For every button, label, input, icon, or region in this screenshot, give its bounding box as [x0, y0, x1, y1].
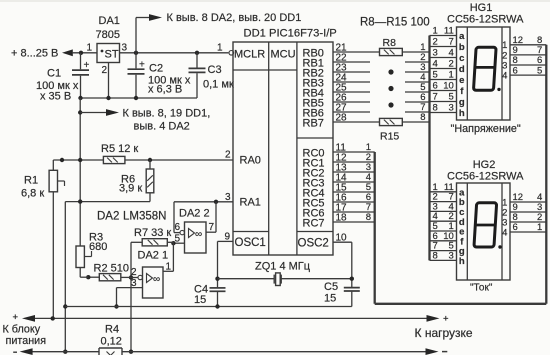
minus rail right arrow: [426, 348, 439, 355]
wire RC7 to digit bus, wire 8: [333, 212, 375, 223]
op-amp DA2.2: [185, 222, 207, 253]
wire RC1 to digit bus, wire 2: [333, 152, 375, 163]
node left drop minus rail: [63, 350, 67, 354]
microcontroller DD1 body: [233, 42, 333, 255]
capacitor C3: [189, 53, 206, 98]
resistor R7: [142, 239, 167, 246]
svg-text:11: 11: [444, 26, 454, 37]
svg-text:c: c: [459, 53, 464, 64]
wire RB4 left part: [333, 91, 370, 93]
trimmer R1: [49, 160, 64, 192]
HG2 segment f pin 10 wire 6: [430, 231, 465, 248]
resistor R3: [76, 246, 84, 268]
wire RB2 left part: [333, 71, 370, 73]
wire RB1 right part, wire 2: [405, 52, 430, 63]
wire ground drop: [79, 98, 81, 246]
resistor R2: [99, 274, 121, 281]
svg-text:0,1 мк: 0,1 мк: [203, 79, 234, 91]
HG1 segment h pin 3 wire 8: [430, 103, 465, 120]
HG1 segment e pin 1 wire 5: [430, 70, 465, 87]
wire RC3 to digit bus, wire 4: [333, 172, 375, 183]
svg-text:15: 15: [324, 293, 336, 305]
label K nagruzke: [415, 326, 473, 340]
svg-text:CC56-12SRWA: CC56-12SRWA: [447, 14, 524, 26]
display HG1 body: [457, 27, 511, 120]
svg-text:a: a: [459, 31, 465, 42]
segment bundle bus: [428, 36, 430, 261]
display HG2 header: [447, 159, 524, 183]
plus mark right: [443, 314, 449, 325]
svg-text:b: b: [459, 42, 465, 53]
capacitor C4 labels: [194, 284, 208, 307]
svg-text:R1: R1: [24, 175, 38, 187]
wire OSC2 down: [351, 242, 353, 287]
resistor R8 label: [383, 37, 397, 49]
capacitor C4: [210, 288, 226, 307]
node R2 R3 junction: [86, 275, 90, 279]
wire RB6 left part: [333, 111, 370, 113]
svg-text:К нагрузке: К нагрузке: [415, 326, 473, 340]
node ground-R5 junction: [78, 158, 82, 162]
wire +5V branch up: [136, 18, 149, 53]
wire R2 left: [88, 276, 99, 278]
wire RA1 to DA2.2 pin6: [173, 202, 175, 233]
wire R2 right to summing node: [121, 276, 131, 278]
R3 wiper tap: [84, 251, 91, 257]
DA2.2 pin5 wire: [173, 242, 184, 244]
wire RB3 left part: [333, 81, 370, 83]
svg-text:3: 3: [449, 103, 454, 114]
svg-text:3: 3: [433, 48, 438, 59]
wire R7 right: [167, 241, 173, 244]
svg-text:2: 2: [449, 59, 454, 70]
svg-text:R5 12 к: R5 12 к: [101, 143, 138, 155]
DD1 RB0 label and pin 21: [303, 43, 348, 60]
DD1 RB3 label and pin 24: [303, 73, 348, 90]
minus rail left arrow: [20, 348, 33, 355]
display HG2 body: [457, 183, 511, 280]
DD1 OSC2 label: [298, 238, 329, 250]
wire R6 bottom to left drop: [65, 193, 150, 202]
HG2 segment d pin 2 wire 4: [430, 211, 465, 228]
capacitor C2 labels: [148, 63, 191, 96]
wire RB0 to R8: [333, 51, 380, 53]
svg-text:OSC1: OSC1: [235, 237, 266, 249]
OSC1 pin9 label: [224, 232, 230, 243]
DD1 RB6 label and pin 27: [303, 103, 348, 120]
HG2 digit 1 common pin 12 wire 4: [502, 192, 546, 208]
node crystal right junction: [350, 277, 354, 281]
DD1 RB7 label and pin 28: [303, 113, 348, 130]
svg-text:+: +: [13, 312, 19, 323]
DA2.1 pin2 bubble: [138, 275, 142, 279]
wire RB5 left part: [333, 101, 370, 103]
wire RB4 right part, wire 5: [405, 82, 430, 93]
DA2.2 pin7 wire: [206, 231, 216, 233]
svg-text:15: 15: [194, 294, 206, 306]
svg-text:RA1: RA1: [240, 197, 261, 209]
svg-text:К выв. 8 DA2, выв. 20 DD1: К выв. 8 DA2, выв. 20 DD1: [167, 12, 302, 24]
shunt resistor R4: [99, 348, 122, 355]
svg-text:х 35 В: х 35 В: [40, 91, 71, 103]
svg-text:4: 4: [502, 227, 507, 238]
DA2.2 pin6 wire: [174, 232, 180, 234]
svg-text:2: 2: [101, 65, 107, 76]
svg-text:h: h: [459, 108, 465, 119]
svg-text:CC56-12SRWA: CC56-12SRWA: [447, 171, 524, 183]
svg-text:∞: ∞: [153, 274, 160, 285]
node pin5 R7 junction: [171, 241, 175, 245]
svg-text:1: 1: [537, 222, 542, 233]
wire RC5 to digit bus, wire 6: [333, 192, 375, 203]
resistor R2 label: [94, 263, 129, 275]
node crystal left junction: [215, 277, 219, 281]
svg-text:4: 4: [449, 48, 454, 59]
svg-text:2: 2: [225, 150, 231, 161]
svg-text:+ 8...25 В: + 8...25 В: [11, 48, 58, 60]
DD1 RA0 label: [240, 155, 261, 167]
resistor R5: [103, 156, 125, 163]
plus rail right arrow: [427, 315, 440, 322]
wire to ground arrow: [80, 112, 106, 114]
DD1 MCLR label: [234, 49, 265, 61]
svg-text:C3: C3: [208, 64, 222, 76]
svg-text:HG1: HG1: [470, 2, 493, 14]
RA0 pin2 label: [225, 150, 231, 161]
svg-text:4: 4: [502, 71, 507, 82]
node C2 top junction: [134, 51, 138, 55]
svg-text:1: 1: [217, 43, 223, 54]
svg-text:R4: R4: [105, 324, 119, 336]
label Napryazhenie: [451, 123, 521, 135]
DD1 RC3 label and pin 14: [303, 173, 348, 190]
svg-text:OSC2: OSC2: [298, 238, 329, 250]
svg-text:2: 2: [433, 37, 438, 48]
HG1 digit 1 common pin 12 wire 8: [502, 35, 546, 51]
minus mark left: [13, 351, 17, 353]
HG2 seven-segment digit: [474, 203, 502, 249]
wire R8 to segment bus, wire 1: [402, 42, 429, 53]
svg-text:1: 1: [449, 70, 454, 81]
wire pin3 to ground rail: [116, 288, 118, 307]
DA1 pin 1 label: [86, 43, 92, 54]
svg-text:3: 3: [122, 43, 128, 54]
DD1 RC0 label and pin 11: [303, 143, 347, 160]
HG2 segment c pin 4 wire 3: [430, 201, 465, 218]
svg-text:ZQ1 4 МГц: ZQ1 4 МГц: [255, 261, 311, 273]
crystal ZQ1: [218, 273, 352, 286]
display HG1 header: [447, 2, 524, 26]
regulator DA1 7805 labels: [96, 15, 120, 41]
DA1 pin 2 label: [101, 65, 107, 76]
svg-text:MCU: MCU: [271, 49, 296, 61]
svg-text:питания: питания: [6, 335, 47, 347]
DA2.2 pin7 label: [209, 222, 215, 233]
wire RB1 left part: [333, 61, 370, 63]
wire OSC2 pin10: [333, 241, 352, 243]
svg-text:DA2 1: DA2 1: [138, 250, 169, 262]
label DA2 LM358N: [97, 211, 166, 223]
node R6 top junction: [148, 158, 152, 162]
regulator DA1 body: [97, 44, 120, 63]
HG1 segment c pin 4 wire 3: [430, 48, 465, 65]
node shunt sense minus rail: [129, 350, 133, 354]
resistor R3 labels: [89, 232, 107, 254]
DD1 RB4 label and pin 25: [303, 83, 348, 100]
capacitor C5: [344, 288, 360, 307]
label R8-R15 100: [360, 17, 430, 29]
svg-text:ST: ST: [105, 49, 119, 61]
node ground arrow junction: [78, 110, 82, 114]
svg-text:"Ток": "Ток": [470, 283, 493, 294]
RA1 pin3 label: [225, 192, 231, 203]
svg-text:R8—R15 100: R8—R15 100: [360, 17, 430, 29]
ellipsis dots for R9-R14: [388, 69, 393, 107]
wire left drop down: [64, 202, 66, 352]
svg-text:g: g: [459, 97, 465, 108]
resistor R6: [146, 160, 154, 193]
label K vyv 8 DA2 vyv 20 DD1: [167, 12, 302, 24]
bundle bottom run: [375, 303, 547, 305]
ground rail bottom: [65, 306, 352, 308]
HG2 segment h pin 3 wire 8: [430, 250, 465, 267]
svg-text:7: 7: [433, 92, 438, 103]
wire R7 left down to summing node: [131, 242, 142, 351]
svg-text:3: 3: [449, 250, 454, 261]
plus rail to load: [35, 317, 427, 319]
DD1 RB5 label and pin 26: [303, 93, 348, 110]
svg-text:DA2: DA2: [97, 211, 119, 223]
node DA1 pin2 ground: [106, 96, 110, 100]
OSC2 pin10 label: [336, 232, 348, 243]
wire RC2 to digit bus, wire 3: [333, 162, 375, 173]
svg-text:6: 6: [513, 222, 518, 233]
svg-text:5: 5: [449, 92, 454, 103]
HG2 segment e pin 1 wire 5: [430, 221, 465, 238]
input arrow: [62, 49, 73, 56]
trimmer R1 labels: [21, 175, 44, 200]
DA2.2 pin6 bubble: [180, 230, 184, 234]
crystal ZQ1 label: [255, 261, 311, 273]
resistor R6 labels: [119, 174, 142, 195]
op-amp DA2.1: [143, 267, 164, 298]
MCLR pin1 label: [217, 43, 223, 54]
node C1 top junction: [79, 51, 83, 55]
wire R1 bottom to plus rail: [52, 192, 54, 319]
DD1 RA1 label: [240, 197, 261, 209]
HG2 segment b pin 7 wire 2: [430, 192, 465, 209]
wire RB2 right part, wire 3: [405, 62, 430, 73]
DD1 RB2 label and pin 23: [303, 63, 348, 80]
HG2 digit 4 common pin 6 wire 1: [502, 222, 546, 238]
wire input to DA1: [72, 52, 97, 54]
DA2.1 pin2 wire: [131, 277, 138, 279]
wire RB6 right part, wire 7: [405, 102, 430, 113]
svg-text:R15: R15: [380, 131, 399, 143]
resistor R5 label: [101, 143, 138, 155]
svg-text:К выв. 8, 19 DD1,: К выв. 8, 19 DD1,: [123, 108, 211, 120]
digit-select bundle left bus: [374, 152, 376, 304]
HG1 segment a pin 11 wire 1: [430, 26, 466, 43]
ground rail under regulator: [80, 97, 197, 99]
svg-text:7805: 7805: [96, 29, 120, 41]
svg-text:10: 10: [336, 232, 348, 243]
wire OSC1 pin9: [218, 240, 234, 242]
wire pin5 node to DA2.1 output: [172, 243, 174, 271]
resistor R15 label: [380, 131, 399, 143]
svg-text:3: 3: [225, 192, 231, 203]
capacitor C2: [128, 53, 146, 98]
node left drop ground rail: [63, 304, 67, 308]
scan border top edge: [0, 0, 550, 2]
DD1 OSC1 label: [235, 237, 266, 249]
svg-text:5: 5: [433, 70, 438, 81]
DD1 RC5 label and pin 16: [303, 193, 348, 210]
capacitor C1: [72, 53, 90, 98]
svg-text:8: 8: [420, 112, 425, 123]
svg-text:R7 33 к: R7 33 к: [134, 227, 171, 239]
svg-text:e: e: [459, 75, 464, 86]
svg-text:RA0: RA0: [240, 155, 261, 167]
node pin3 ground junction: [114, 304, 118, 308]
node RA1 feedback junction: [214, 200, 218, 204]
DA1 pin 3 label: [122, 43, 128, 54]
svg-text:C2: C2: [149, 63, 163, 75]
digit-select bundle right bus: [545, 45, 547, 304]
svg-text:1: 1: [166, 262, 172, 273]
svg-text:8: 8: [366, 212, 371, 223]
op-amp DA2.1 label: [138, 250, 169, 262]
node summing junction: [129, 275, 133, 279]
minus mark right: [442, 351, 447, 353]
wire +5V rail DA1 to MCLR: [120, 52, 229, 54]
MCLR inversion bubble: [229, 51, 234, 56]
wire OSC1 down: [217, 241, 219, 287]
capacitor C1 labels: [36, 68, 79, 103]
svg-text:R2 510: R2 510: [94, 263, 129, 275]
shunt R4 labels: [101, 324, 122, 348]
DD1 RC1 label and pin 12: [303, 153, 348, 170]
svg-text:2: 2: [131, 267, 137, 278]
svg-text:7: 7: [209, 222, 215, 233]
svg-text:+: +: [139, 60, 145, 71]
HG1 segment f pin 10 wire 6: [430, 81, 465, 98]
DD1 RC2 label and pin 13: [303, 163, 348, 180]
svg-text:1: 1: [433, 26, 438, 37]
wire R5 to RA0: [125, 159, 233, 161]
DD1 RB1 label and pin 22: [303, 53, 348, 70]
DD1 RC6 label and pin 17: [303, 203, 348, 220]
svg-text:3: 3: [131, 278, 137, 289]
svg-text:∞: ∞: [195, 229, 202, 240]
node C3 top junction: [195, 51, 199, 55]
svg-text:+: +: [84, 60, 90, 71]
plus mark left: [13, 312, 19, 323]
DA2.2 pin5 label: [174, 233, 180, 244]
svg-text:d: d: [459, 64, 465, 75]
svg-text:h: h: [459, 256, 465, 267]
node R1 bottom plus rail: [51, 316, 55, 320]
svg-text:DA2 2: DA2 2: [179, 208, 210, 220]
wire R15 to segment bus, wire 8: [402, 112, 429, 123]
HG1 segment g pin 5 wire 7: [430, 92, 465, 109]
DD1 RC7 label and pin 18: [303, 213, 348, 230]
svg-text:6: 6: [513, 65, 518, 76]
svg-text:4: 4: [433, 59, 438, 70]
HG1 digit 2 common pin 9 wire 7: [502, 45, 546, 61]
svg-text:RC7: RC7: [303, 217, 325, 229]
minus rail right part: [122, 351, 427, 353]
HG2 digit 3 common pin 8 wire 2: [502, 212, 546, 228]
plus rail left arrow: [22, 315, 35, 322]
resistor R7 label: [134, 227, 171, 239]
wire RB3 right part, wire 4: [405, 72, 430, 83]
wire RB7 to R15: [333, 121, 380, 123]
node R1 wiper junction: [60, 158, 64, 162]
capacitor C5 labels: [324, 281, 338, 305]
node +8...25V input label: [11, 48, 58, 60]
svg-text:"Напряжение": "Напряжение": [451, 123, 521, 135]
HG1 digit 3 common pin 8 wire 6: [502, 55, 546, 71]
HG2 segment g pin 5 wire 7: [430, 241, 465, 258]
DA2.1 pin2 label: [131, 267, 137, 278]
label K bloku pitaniya: [3, 324, 47, 348]
HG1 digit 4 common pin 6 wire 5: [502, 65, 546, 81]
HG1 segment d pin 2 wire 4: [430, 59, 465, 76]
DA2.1 pin1 wire: [163, 270, 173, 272]
label Tok: [470, 283, 493, 294]
DA2.1 pin3 label: [131, 278, 137, 289]
microcontroller DD1 header: [244, 28, 337, 40]
minus rail left part: [32, 351, 99, 353]
svg-text:9: 9: [224, 232, 230, 243]
svg-text:5: 5: [537, 65, 542, 76]
svg-text:8: 8: [433, 103, 438, 114]
svg-text:10: 10: [443, 81, 454, 92]
svg-text:выв. 4 DA2: выв. 4 DA2: [134, 121, 190, 133]
wire RC0 to digit bus, wire 1: [333, 142, 375, 153]
DD1 MCU label: [271, 49, 296, 61]
capacitor C3 labels: [203, 64, 234, 91]
op-amp DA2.2 label: [179, 208, 210, 220]
DA2.1 pin1 label: [166, 262, 172, 273]
svg-text:MCLR: MCLR: [234, 49, 265, 61]
svg-text:DA1: DA1: [99, 15, 120, 27]
svg-text:DD1 PIC16F73-I/P: DD1 PIC16F73-I/P: [244, 28, 337, 40]
label K vyv 8 19 DD1: [123, 108, 211, 133]
svg-text:1: 1: [86, 43, 92, 54]
arrow to DA2 pin8 DD1 pin20: [149, 14, 162, 21]
svg-text:7: 7: [449, 37, 454, 48]
svg-text:HG2: HG2: [473, 159, 496, 171]
wire DA2.2 pin7 up to RA1: [215, 202, 217, 232]
svg-text:C1: C1: [47, 68, 61, 80]
node C2 bottom: [134, 96, 138, 100]
resistor R8: [380, 48, 403, 55]
wire RC6 to digit bus, wire 7: [333, 202, 375, 213]
svg-text:8: 8: [433, 250, 438, 261]
DD1 RC4 label and pin 15: [303, 183, 348, 200]
svg-text:6: 6: [174, 222, 180, 233]
svg-text:6,8 к: 6,8 к: [21, 188, 44, 200]
wire R3 bottom: [80, 268, 88, 278]
resistor R15: [380, 118, 403, 125]
svg-text:3,9 к: 3,9 к: [119, 183, 142, 195]
svg-text:6: 6: [433, 81, 438, 92]
wire RA0 row left part: [53, 159, 103, 161]
wire DA1 pin2 to ground rail: [108, 63, 110, 99]
wire RB5 right part, wire 6: [405, 92, 430, 103]
